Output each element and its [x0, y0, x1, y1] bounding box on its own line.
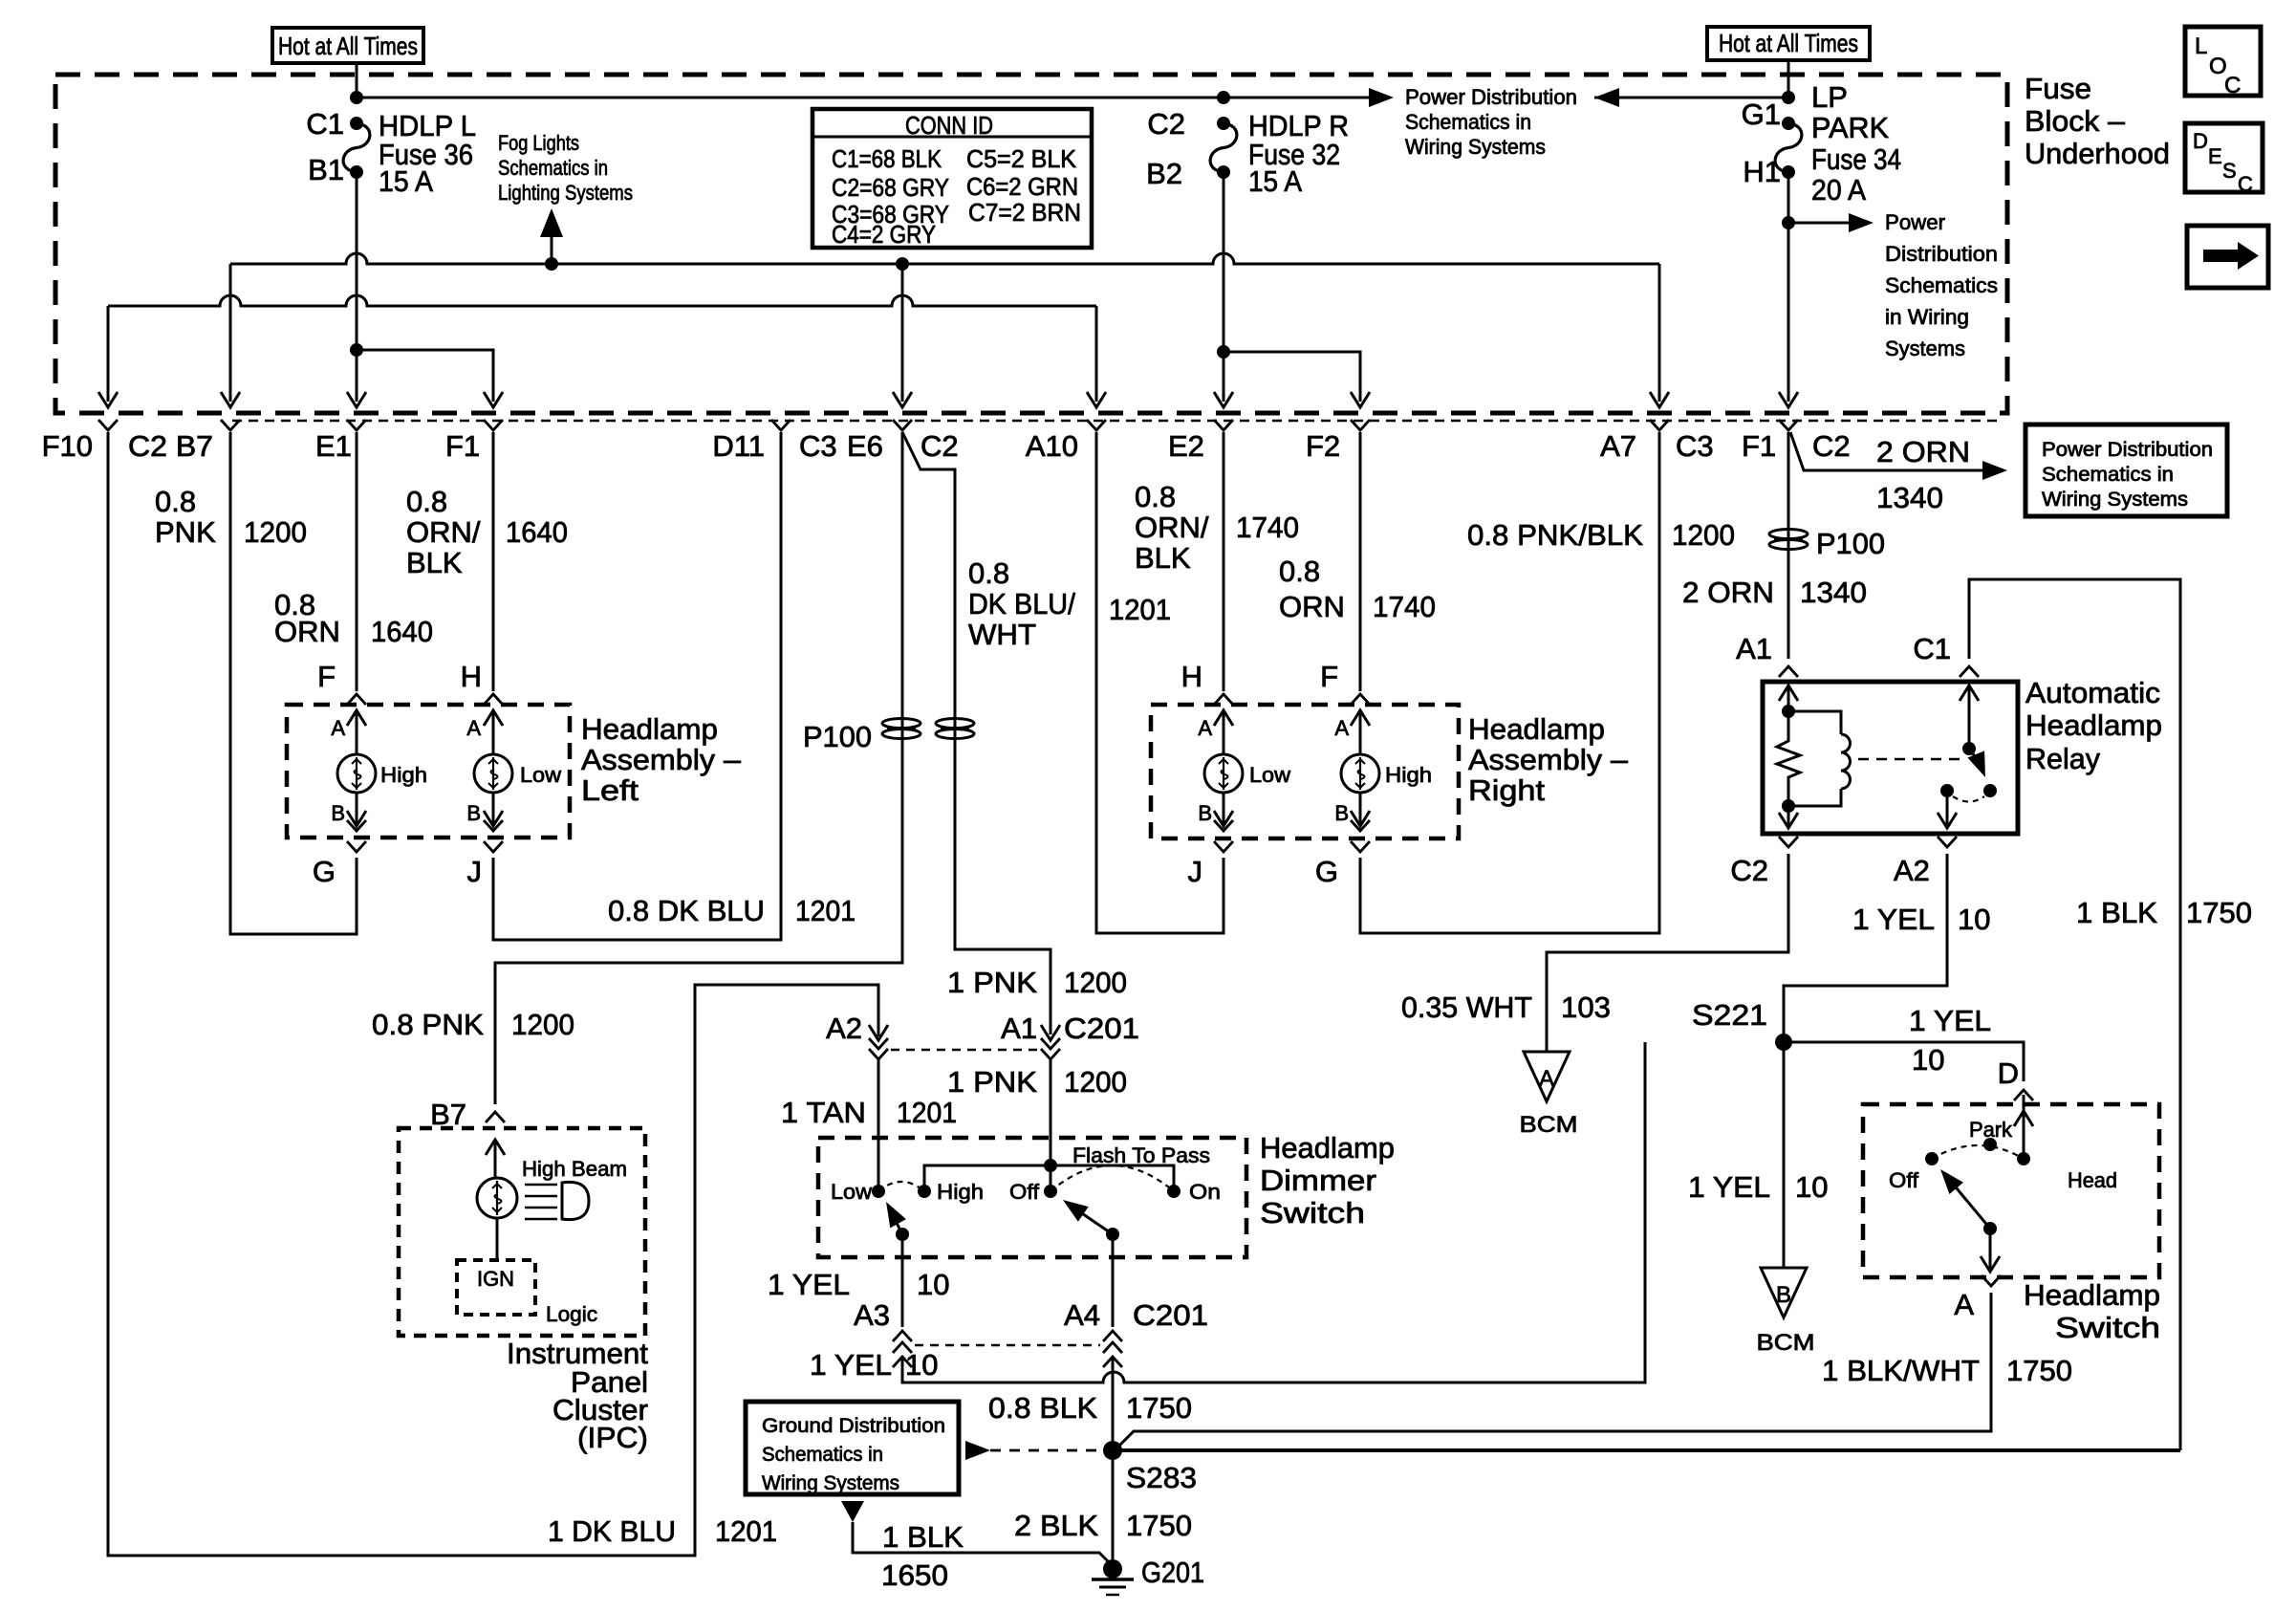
svg-text:0.8 DK BLU: 0.8 DK BLU: [608, 894, 765, 927]
svg-text:B: B: [1334, 801, 1349, 825]
svg-text:B: B: [466, 801, 481, 825]
svg-text:D: D: [2193, 129, 2208, 153]
svg-text:1750: 1750: [2006, 1354, 2072, 1387]
svg-text:A1: A1: [1001, 1012, 1037, 1045]
svg-text:Switch: Switch: [2055, 1311, 2160, 1344]
svg-text:High Beam: High Beam: [522, 1157, 627, 1181]
svg-text:J: J: [1188, 855, 1203, 888]
svg-text:Schematics in: Schematics in: [762, 1444, 883, 1466]
svg-text:C4=2 GRY: C4=2 GRY: [832, 220, 936, 249]
svg-text:1740: 1740: [1236, 511, 1299, 544]
svg-text:A: A: [1954, 1288, 1974, 1321]
svg-text:C3: C3: [1676, 429, 1714, 463]
svg-text:H: H: [461, 660, 482, 693]
svg-text:0.35 WHT: 0.35 WHT: [1401, 991, 1532, 1024]
svg-text:Head: Head: [2068, 1168, 2117, 1192]
svg-text:20 A: 20 A: [1811, 173, 1866, 207]
svg-text:BLK: BLK: [1135, 541, 1191, 575]
svg-text:A2: A2: [1894, 854, 1930, 887]
svg-text:Headlamp: Headlamp: [1260, 1131, 1395, 1165]
svg-text:0.8: 0.8: [155, 485, 196, 518]
svg-text:1 BLK: 1 BLK: [2076, 896, 2157, 929]
svg-text:Flash To Pass: Flash To Pass: [1072, 1143, 1210, 1167]
svg-text:in Wiring: in Wiring: [1885, 305, 1969, 329]
svg-text:1640: 1640: [371, 615, 433, 648]
svg-text:1640: 1640: [506, 515, 568, 549]
svg-text:1201: 1201: [1109, 593, 1171, 626]
svg-text:C2: C2: [1147, 107, 1185, 141]
svg-text:C: C: [2238, 172, 2253, 196]
svg-text:Dimmer: Dimmer: [1260, 1164, 1376, 1197]
svg-text:2 ORN: 2 ORN: [1876, 435, 1970, 468]
svg-text:D: D: [1998, 1056, 2019, 1090]
svg-text:PNK: PNK: [155, 515, 216, 549]
svg-text:0.8: 0.8: [406, 485, 447, 518]
svg-text:15 A: 15 A: [379, 164, 433, 198]
svg-text:1 PNK: 1 PNK: [947, 1065, 1037, 1099]
svg-text:C201: C201: [1064, 1012, 1139, 1045]
svg-text:Right: Right: [1468, 773, 1545, 807]
svg-text:P100: P100: [1816, 527, 1885, 560]
svg-text:1750: 1750: [1126, 1509, 1192, 1542]
svg-text:High: High: [937, 1180, 984, 1204]
svg-text:L: L: [2195, 33, 2207, 59]
svg-text:1340: 1340: [1800, 576, 1867, 609]
svg-text:0.8 BLK: 0.8 BLK: [988, 1391, 1097, 1425]
svg-text:On: On: [1189, 1180, 1221, 1204]
svg-text:P100: P100: [803, 720, 872, 753]
svg-text:A: A: [466, 716, 481, 740]
svg-text:1 DK BLU: 1 DK BLU: [548, 1514, 676, 1548]
svg-text:A: A: [1539, 1066, 1554, 1092]
svg-text:10: 10: [1958, 903, 1990, 936]
svg-text:High: High: [1385, 763, 1432, 787]
svg-text:B2: B2: [1146, 157, 1182, 190]
svg-text:10: 10: [1795, 1170, 1828, 1204]
svg-text:WHT: WHT: [968, 618, 1036, 651]
svg-text:H1: H1: [1743, 155, 1781, 188]
svg-text:C6=2 GRN: C6=2 GRN: [966, 172, 1078, 201]
svg-text:10: 10: [1912, 1043, 1944, 1077]
svg-text:Low: Low: [831, 1180, 872, 1204]
svg-text:G: G: [313, 855, 336, 888]
svg-text:BLK: BLK: [406, 546, 463, 579]
svg-text:1201: 1201: [715, 1514, 777, 1548]
svg-text:A: A: [331, 716, 345, 740]
svg-text:Low: Low: [1249, 763, 1290, 787]
svg-text:Lighting Systems: Lighting Systems: [498, 181, 633, 205]
svg-text:10: 10: [905, 1348, 938, 1382]
svg-text:S: S: [2222, 159, 2237, 183]
svg-text:Automatic: Automatic: [2025, 676, 2160, 709]
svg-text:A: A: [1198, 716, 1212, 740]
svg-text:B: B: [331, 801, 345, 825]
svg-text:1740: 1740: [1373, 590, 1436, 623]
svg-text:2 ORN: 2 ORN: [1682, 576, 1774, 609]
svg-text:G: G: [1315, 855, 1338, 888]
svg-text:1 PNK: 1 PNK: [947, 966, 1037, 999]
svg-text:C3: C3: [799, 429, 837, 463]
svg-text:Assembly –: Assembly –: [1468, 743, 1629, 776]
svg-text:C1=68 BLK: C1=68 BLK: [832, 144, 942, 173]
svg-text:J: J: [467, 855, 483, 888]
svg-text:ORN: ORN: [1279, 590, 1345, 623]
svg-text:LP: LP: [1811, 80, 1848, 114]
svg-text:Wiring Systems: Wiring Systems: [762, 1472, 899, 1494]
svg-text:Left: Left: [581, 773, 639, 807]
svg-text:103: 103: [1561, 991, 1611, 1024]
svg-text:C2=68 GRY: C2=68 GRY: [832, 173, 949, 202]
svg-text:Power Distribution: Power Distribution: [2042, 439, 2213, 461]
svg-text:0.8: 0.8: [1279, 555, 1320, 588]
svg-text:1 BLK: 1 BLK: [882, 1520, 964, 1554]
svg-text:BCM: BCM: [1520, 1112, 1578, 1138]
svg-text:C1: C1: [306, 107, 344, 141]
svg-text:Park: Park: [1969, 1118, 2013, 1142]
svg-text:1200: 1200: [1672, 518, 1735, 552]
svg-text:G201: G201: [1141, 1556, 1204, 1589]
svg-text:A2: A2: [826, 1012, 862, 1045]
svg-text:F2: F2: [1306, 429, 1340, 463]
svg-text:ORN/: ORN/: [1135, 511, 1209, 544]
svg-text:B1: B1: [308, 153, 344, 186]
svg-text:Relay: Relay: [2025, 742, 2100, 775]
svg-text:1 BLK/WHT: 1 BLK/WHT: [1822, 1354, 1980, 1387]
svg-text:0.8: 0.8: [1135, 480, 1176, 513]
svg-text:C2: C2: [1730, 854, 1768, 887]
svg-text:E1: E1: [315, 429, 352, 463]
svg-text:Schematics: Schematics: [1885, 273, 1998, 297]
svg-text:A4: A4: [1064, 1298, 1100, 1332]
svg-text:C201: C201: [1133, 1298, 1208, 1332]
svg-text:1 YEL: 1 YEL: [768, 1268, 850, 1301]
svg-text:1 YEL: 1 YEL: [1909, 1004, 1991, 1037]
svg-text:S221: S221: [1692, 998, 1767, 1032]
svg-text:C5=2 BLK: C5=2 BLK: [966, 144, 1077, 173]
svg-text:15 A: 15 A: [1248, 164, 1302, 198]
svg-text:A: A: [1334, 716, 1349, 740]
svg-text:0.8 PNK: 0.8 PNK: [372, 1008, 484, 1041]
svg-text:Power Distribution: Power Distribution: [1405, 85, 1577, 109]
svg-text:Schematics in: Schematics in: [2042, 464, 2174, 486]
svg-text:(IPC): (IPC): [577, 1421, 648, 1454]
svg-text:ORN/: ORN/: [406, 515, 481, 549]
svg-text:C2 B7: C2 B7: [128, 429, 213, 463]
svg-text:F1: F1: [1742, 429, 1776, 463]
svg-text:Wiring Systems: Wiring Systems: [2042, 489, 2188, 511]
svg-text:F: F: [317, 660, 336, 693]
svg-text:Off: Off: [1009, 1180, 1040, 1204]
svg-text:1750: 1750: [2186, 896, 2252, 929]
svg-text:Headlamp: Headlamp: [1468, 712, 1605, 746]
svg-text:S283: S283: [1126, 1461, 1197, 1494]
svg-text:G1: G1: [1742, 98, 1781, 131]
svg-text:1 YEL: 1 YEL: [1852, 903, 1935, 936]
svg-text:Assembly –: Assembly –: [581, 743, 742, 776]
svg-text:E2: E2: [1168, 429, 1204, 463]
svg-text:C7=2 BRN: C7=2 BRN: [968, 198, 1081, 227]
svg-text:1 YEL: 1 YEL: [810, 1348, 892, 1382]
svg-text:1 TAN: 1 TAN: [781, 1096, 866, 1129]
svg-text:Fuse 34: Fuse 34: [1811, 142, 1901, 176]
svg-text:Ground Distribution: Ground Distribution: [762, 1415, 945, 1437]
svg-text:Logic: Logic: [546, 1302, 597, 1326]
svg-text:F10: F10: [42, 429, 93, 463]
svg-text:E6: E6: [847, 429, 883, 463]
svg-text:High: High: [380, 763, 427, 787]
svg-text:1200: 1200: [1064, 966, 1127, 999]
svg-text:DK BLU/: DK BLU/: [968, 587, 1075, 620]
svg-text:A10: A10: [1026, 429, 1078, 463]
svg-text:Headlamp: Headlamp: [581, 712, 718, 746]
svg-text:Distribution: Distribution: [1885, 242, 1998, 266]
svg-text:A3: A3: [854, 1298, 890, 1332]
svg-text:Headlamp: Headlamp: [2024, 1278, 2160, 1312]
svg-text:Underhood: Underhood: [2025, 137, 2170, 170]
svg-text:Systems: Systems: [1885, 337, 1965, 360]
svg-text:F: F: [1320, 660, 1338, 693]
svg-text:0.8 PNK/BLK: 0.8 PNK/BLK: [1467, 518, 1643, 552]
svg-text:Power: Power: [1885, 210, 1945, 234]
svg-text:1200: 1200: [511, 1008, 574, 1041]
svg-text:PARK: PARK: [1811, 111, 1889, 144]
svg-text:A7: A7: [1600, 429, 1636, 463]
svg-text:1 YEL: 1 YEL: [1688, 1170, 1770, 1204]
svg-text:B: B: [1776, 1282, 1791, 1308]
svg-text:Fuse: Fuse: [2025, 72, 2091, 105]
svg-text:1200: 1200: [1064, 1065, 1127, 1099]
svg-text:Block –: Block –: [2025, 104, 2126, 138]
svg-text:Switch: Switch: [1260, 1196, 1365, 1230]
svg-text:2 BLK: 2 BLK: [1014, 1509, 1098, 1542]
svg-text:ORN: ORN: [274, 615, 340, 648]
svg-text:H: H: [1181, 660, 1202, 693]
svg-text:Fog Lights: Fog Lights: [498, 131, 579, 155]
svg-text:Schematics in: Schematics in: [1405, 110, 1531, 134]
svg-text:Wiring Systems: Wiring Systems: [1405, 135, 1546, 159]
svg-text:Headlamp: Headlamp: [2025, 708, 2162, 742]
svg-text:1201: 1201: [795, 894, 856, 927]
svg-text:F1: F1: [445, 429, 480, 463]
svg-text:C: C: [2224, 73, 2241, 98]
svg-text:1650: 1650: [881, 1558, 948, 1592]
svg-text:C2: C2: [921, 429, 959, 463]
svg-text:D11: D11: [712, 429, 765, 463]
svg-text:C2: C2: [1812, 429, 1851, 463]
svg-text:1201: 1201: [897, 1096, 957, 1129]
svg-text:10: 10: [917, 1268, 949, 1301]
svg-text:Low: Low: [520, 763, 561, 787]
svg-text:C1: C1: [1913, 632, 1951, 665]
svg-text:0.8: 0.8: [968, 556, 1009, 590]
svg-text:1340: 1340: [1876, 481, 1943, 514]
svg-text:IGN: IGN: [477, 1267, 514, 1291]
svg-text:Off: Off: [1889, 1168, 1919, 1192]
svg-text:Schematics in: Schematics in: [498, 156, 608, 180]
svg-text:A1: A1: [1736, 632, 1772, 665]
svg-text:B: B: [1198, 801, 1212, 825]
svg-text:E: E: [2208, 144, 2222, 168]
svg-text:Hot at All Times: Hot at All Times: [1719, 29, 1858, 57]
svg-text:BCM: BCM: [1757, 1330, 1815, 1356]
svg-text:1750: 1750: [1126, 1391, 1192, 1425]
svg-text:Hot at All Times: Hot at All Times: [278, 32, 418, 60]
svg-text:1200: 1200: [244, 515, 307, 549]
